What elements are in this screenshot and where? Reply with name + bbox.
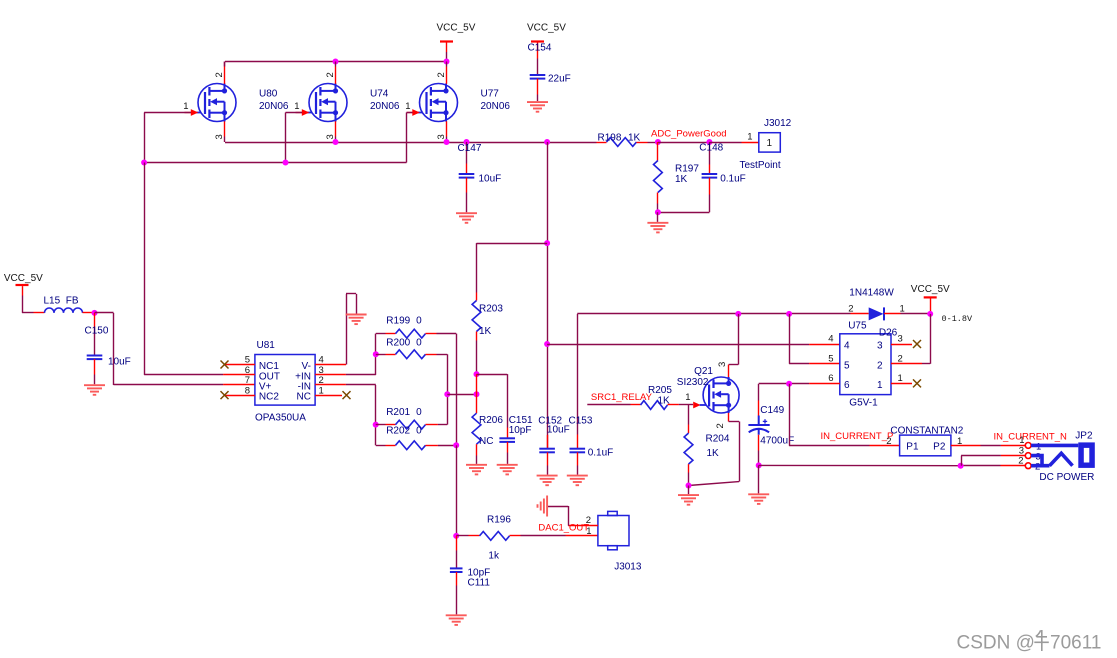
svg-text:VCC_5V: VCC_5V bbox=[911, 284, 950, 295]
watermark CSDN bbox=[957, 630, 1102, 654]
resistor R199 0 bbox=[376, 315, 456, 338]
transistor U77 20N06 bbox=[416, 84, 510, 122]
pin 3 lead U80 bbox=[214, 121, 225, 142]
svg-text:2: 2 bbox=[586, 515, 591, 526]
junction source bus U74 bbox=[333, 139, 339, 145]
wire source bus bbox=[225, 142, 597, 144]
junction diode row Q21 drain bbox=[735, 311, 741, 317]
wire Q21 drain bbox=[729, 314, 739, 377]
wire R202 node down to R196 bbox=[456, 445, 458, 536]
capacitor C149 4700uF bbox=[748, 384, 794, 466]
svg-text:R200: R200 bbox=[386, 337, 410, 348]
junction R203 bottom link bbox=[474, 391, 480, 397]
ground R204 bbox=[688, 486, 690, 495]
svg-text:DC POWER: DC POWER bbox=[1039, 472, 1094, 483]
pin 2 lead U77 bbox=[436, 62, 447, 84]
pin 3 lead U77 bbox=[436, 121, 447, 142]
junction source bus main vertical bbox=[544, 139, 550, 145]
capacitor C153 0.1uF bbox=[569, 314, 614, 475]
wire U77 gate bbox=[407, 113, 413, 163]
pin 5 NC1 lead with no-connect bbox=[221, 361, 255, 369]
ground C147 bbox=[456, 213, 477, 223]
junction R196 C111 node bbox=[453, 533, 459, 539]
pin 8 NC2 lead with no-connect bbox=[221, 391, 255, 399]
svg-text:2: 2 bbox=[1018, 456, 1023, 467]
ground C152 bbox=[537, 476, 558, 486]
svg-text:22uF: 22uF bbox=[548, 74, 571, 85]
pin 2 -IN lead bbox=[315, 384, 376, 386]
svg-text:5: 5 bbox=[828, 353, 833, 364]
svg-text:R199: R199 bbox=[386, 315, 410, 326]
svg-text:1K: 1K bbox=[479, 326, 492, 337]
wire +IN vertical bbox=[375, 334, 377, 375]
svg-text:JP2: JP2 bbox=[1075, 431, 1093, 442]
svg-text:20N06: 20N06 bbox=[370, 101, 400, 112]
pin 2 relay lead bbox=[891, 314, 931, 364]
svg-text:R197: R197 bbox=[675, 163, 699, 174]
svg-text:1K: 1K bbox=[707, 448, 720, 459]
resistor R197 1K bbox=[654, 142, 700, 212]
svg-text:P2: P2 bbox=[933, 442, 946, 453]
svg-text:1N4148W: 1N4148W bbox=[849, 288, 894, 299]
power VCC_5V (relay) bbox=[911, 284, 950, 314]
svg-text:10uF: 10uF bbox=[479, 174, 502, 185]
svg-text:R206: R206 bbox=[479, 415, 503, 426]
svg-text:10uF: 10uF bbox=[547, 425, 570, 436]
junction -IN R201 bbox=[373, 422, 379, 428]
svg-text:Q21: Q21 bbox=[694, 366, 713, 377]
svg-text:VCC_5V: VCC_5V bbox=[4, 273, 43, 284]
wire JP2 pin3 link bbox=[961, 456, 1025, 466]
capacitor C151 10pF bbox=[499, 415, 533, 464]
svg-text:CONSTANTAN2: CONSTANTAN2 bbox=[890, 426, 963, 437]
svg-text:U74: U74 bbox=[370, 89, 389, 100]
wire U80 gate bbox=[144, 113, 191, 163]
svg-text:1K: 1K bbox=[658, 396, 671, 407]
svg-text:1K: 1K bbox=[675, 174, 688, 185]
svg-text:C154: C154 bbox=[528, 42, 552, 53]
resistor R206 NC bbox=[472, 394, 503, 464]
svg-text:0.1uF: 0.1uF bbox=[588, 448, 614, 459]
wire bottom bus to JP2 bbox=[759, 464, 1026, 466]
junction C149 bottom bbox=[756, 462, 762, 468]
junction gate bus U74 bbox=[283, 160, 289, 166]
svg-text:ADC_PowerGood: ADC_PowerGood bbox=[651, 129, 727, 140]
junction Q21 source R204 bbox=[686, 483, 692, 489]
svg-text:4: 4 bbox=[828, 334, 833, 345]
wire U80 drain corner bbox=[224, 62, 226, 67]
svg-text:R203: R203 bbox=[479, 304, 503, 315]
wire Q21 source bbox=[689, 413, 740, 486]
wire J3013 pin2 to ground bbox=[548, 506, 598, 526]
wire node to C148 bbox=[658, 142, 710, 144]
resistor R203 1K bbox=[472, 293, 503, 375]
pin 2 lead U74 bbox=[325, 62, 336, 84]
svg-text:1: 1 bbox=[586, 526, 591, 537]
svg-text:1: 1 bbox=[900, 304, 905, 315]
pin 1 gate lead Q21 bbox=[685, 392, 700, 408]
power VCC_5V (left) bbox=[4, 273, 43, 285]
svg-text:NC: NC bbox=[479, 436, 493, 447]
testpoint J3012 bbox=[740, 118, 792, 171]
svg-text:0: 0 bbox=[416, 337, 422, 348]
junction top bus at U74 drain bbox=[333, 59, 339, 65]
svg-text:R204: R204 bbox=[706, 434, 730, 445]
svg-text:C111: C111 bbox=[468, 578, 491, 589]
svg-text:R196: R196 bbox=[487, 515, 511, 526]
wire VCC to L15 bbox=[22, 286, 45, 313]
wire pin6 node to P1 bbox=[789, 384, 900, 446]
svg-text:1: 1 bbox=[767, 138, 773, 149]
svg-text:3: 3 bbox=[717, 362, 728, 367]
svg-text:4: 4 bbox=[844, 341, 850, 352]
pin 4 V- lead bbox=[315, 294, 356, 365]
relay U75 G5V-1 bbox=[828, 321, 903, 409]
junction +IN R200 bbox=[373, 351, 379, 357]
svg-text:IN_CURRENT_P: IN_CURRENT_P bbox=[821, 431, 894, 442]
wire gate bus to U81 OUT bbox=[144, 163, 223, 375]
svg-text:R205: R205 bbox=[648, 385, 672, 396]
resistor R201 0 bbox=[376, 407, 448, 429]
junction R203 bottom bbox=[474, 371, 480, 377]
junction relay row branch bbox=[544, 341, 550, 347]
svg-text:10uF: 10uF bbox=[108, 357, 131, 368]
svg-text:C149: C149 bbox=[760, 405, 784, 416]
svg-text:R198: R198 bbox=[598, 133, 622, 144]
wire relay pin6 row bbox=[759, 383, 840, 385]
junction R202 right bbox=[453, 442, 459, 448]
svg-text:TestPoint: TestPoint bbox=[740, 160, 781, 171]
svg-text:C147: C147 bbox=[458, 143, 482, 154]
svg-text:C148: C148 bbox=[699, 143, 723, 154]
svg-text:R202: R202 bbox=[386, 426, 410, 437]
svg-text:0.1uF: 0.1uF bbox=[720, 174, 746, 185]
svg-text:C150: C150 bbox=[85, 326, 109, 337]
transistor U80 20N06 bbox=[195, 84, 289, 122]
ground C154 bbox=[527, 102, 548, 112]
svg-text:NC: NC bbox=[297, 392, 311, 403]
junction pin6 node bbox=[786, 381, 792, 387]
capacitor C152 10uF bbox=[538, 415, 569, 474]
svg-text:6: 6 bbox=[828, 373, 833, 384]
ground C150 bbox=[84, 385, 105, 395]
pin 3 relay no-connect bbox=[891, 340, 921, 348]
wire C150 to U81 V+ bbox=[95, 313, 255, 386]
junction C148 top bbox=[706, 139, 712, 145]
ground C153 bbox=[567, 476, 588, 486]
connector J3013 bbox=[586, 511, 642, 572]
svg-text:SI2302: SI2302 bbox=[677, 377, 709, 388]
pin 1 gate lead U74 bbox=[294, 101, 309, 116]
svg-text:20N06: 20N06 bbox=[481, 101, 511, 112]
svg-text:1: 1 bbox=[685, 392, 690, 403]
svg-text:8: 8 bbox=[245, 385, 250, 396]
wire -IN vertical bbox=[375, 385, 377, 445]
svg-text:NC1: NC1 bbox=[259, 361, 279, 372]
transistor U74 20N06 bbox=[306, 84, 400, 122]
junction diode VCC node bbox=[927, 311, 933, 317]
wire R199-R202 right vertical bbox=[456, 334, 458, 446]
svg-text:U81: U81 bbox=[257, 340, 276, 351]
junction source bus U77 bbox=[444, 139, 450, 145]
pin 3 +IN lead bbox=[315, 374, 376, 376]
svg-text:2: 2 bbox=[325, 72, 336, 77]
svg-text:0-1.8V: 0-1.8V bbox=[942, 314, 974, 324]
svg-text:C153: C153 bbox=[569, 415, 593, 426]
svg-text:2: 2 bbox=[214, 72, 225, 77]
op-amp U81 OPA350UA bbox=[245, 340, 324, 424]
svg-text:D26: D26 bbox=[879, 327, 898, 338]
transistor Q21 SI2302 bbox=[677, 362, 739, 429]
connector JP2 DC POWER bbox=[1018, 431, 1095, 483]
svg-text:R201: R201 bbox=[386, 407, 410, 418]
junction node ADC_PowerGood bbox=[655, 139, 661, 145]
junction source bus C147 bbox=[464, 139, 470, 145]
junction feedback node bbox=[444, 391, 450, 397]
svg-text:1: 1 bbox=[294, 101, 299, 112]
ground R206 bbox=[466, 465, 487, 475]
svg-text:2: 2 bbox=[886, 436, 891, 447]
wire branch to R203 bbox=[477, 243, 548, 292]
wire gate bus bbox=[144, 162, 406, 164]
svg-text:1: 1 bbox=[183, 101, 188, 112]
svg-text:J3012: J3012 bbox=[764, 118, 792, 129]
junction top bus at U77 drain bbox=[444, 59, 450, 65]
svg-text:1k: 1k bbox=[488, 551, 500, 562]
ground C149 bbox=[758, 465, 760, 493]
svg-text:1: 1 bbox=[898, 373, 903, 384]
svg-text:3: 3 bbox=[898, 334, 903, 345]
svg-text:VCC_5V: VCC_5V bbox=[527, 23, 566, 34]
junction gate bus left bbox=[141, 160, 147, 166]
diode D26 1N4148W bbox=[848, 288, 930, 321]
wire P2 to JP2 pin1 bbox=[951, 445, 1025, 447]
wire to relay pin 4 bbox=[547, 344, 840, 346]
svg-text:L15 FB: L15 FB bbox=[44, 296, 79, 307]
svg-text:NC2: NC2 bbox=[259, 392, 279, 403]
resistor R202 0 bbox=[376, 426, 456, 450]
wire relay pin5 drop bbox=[789, 314, 840, 364]
svg-text:3: 3 bbox=[325, 134, 336, 139]
svg-text:OPA350UA: OPA350UA bbox=[255, 412, 306, 423]
svg-text:1: 1 bbox=[877, 380, 883, 391]
capacitor C154 22uF bbox=[528, 42, 571, 101]
svg-text:2: 2 bbox=[436, 72, 447, 77]
wire top drain bus bbox=[225, 61, 447, 63]
wire R197 C148 bottoms bbox=[658, 212, 710, 214]
svg-text:3: 3 bbox=[877, 341, 883, 352]
resistor R205 1K bbox=[631, 385, 694, 409]
wire to testpoint bbox=[709, 142, 758, 144]
svg-text:VCC_5V: VCC_5V bbox=[437, 23, 476, 34]
resistor R200 0 bbox=[376, 337, 448, 358]
svg-text:3: 3 bbox=[214, 134, 225, 139]
svg-text:0: 0 bbox=[416, 315, 422, 326]
pin 1 gate lead U80 bbox=[183, 101, 198, 116]
ground J3013 (rotated) bbox=[538, 496, 548, 517]
svg-text:U75: U75 bbox=[848, 321, 867, 332]
svg-text:70611: 70611 bbox=[1050, 633, 1101, 654]
power VCC_5V (top, over U77) bbox=[437, 23, 476, 42]
resistor R196 1k bbox=[456, 515, 565, 562]
svg-text:2: 2 bbox=[715, 423, 726, 428]
svg-text:DAC1_OUT: DAC1_OUT bbox=[538, 523, 589, 534]
inductor L15 FB bbox=[44, 296, 95, 313]
svg-text:G5V-1: G5V-1 bbox=[849, 397, 878, 408]
wire R203 node to C151 bbox=[477, 374, 508, 427]
pin 1 relay no-connect bbox=[891, 379, 921, 387]
svg-text:5: 5 bbox=[844, 360, 850, 371]
svg-text:1K: 1K bbox=[628, 133, 641, 144]
svg-text:CSDN @: CSDN @ bbox=[957, 633, 1035, 654]
svg-text:0: 0 bbox=[416, 407, 422, 418]
svg-text:1: 1 bbox=[747, 132, 752, 143]
svg-text:V-: V- bbox=[302, 361, 311, 372]
ground C111 bbox=[446, 615, 467, 625]
wire R203 node down bbox=[476, 374, 478, 394]
svg-text:1: 1 bbox=[405, 101, 410, 112]
junction main vertical R203 branch bbox=[544, 240, 550, 246]
svg-text:20N06: 20N06 bbox=[259, 101, 289, 112]
wire SRC1_RELAY stub bbox=[587, 404, 630, 406]
pin 2 lead U80 bbox=[214, 62, 225, 84]
svg-text:3: 3 bbox=[436, 134, 447, 139]
svg-text:2: 2 bbox=[848, 304, 853, 315]
svg-text:10pF: 10pF bbox=[509, 425, 532, 436]
svg-text:P1: P1 bbox=[906, 442, 919, 453]
svg-text:U80: U80 bbox=[259, 89, 278, 100]
wire R200-R201 right vertical bbox=[447, 354, 449, 424]
wire VCC to top bus bbox=[446, 43, 448, 62]
svg-text:6: 6 bbox=[844, 380, 850, 391]
svg-text:2: 2 bbox=[898, 353, 903, 364]
ground R197 C148 bbox=[657, 212, 659, 222]
wire to J3013 pin1 bbox=[566, 535, 598, 537]
junction diode row relay pin5 bbox=[786, 311, 792, 317]
svg-text:U77: U77 bbox=[481, 89, 500, 100]
resistor R198 1K bbox=[597, 133, 658, 147]
wire main vertical VCC rail bbox=[547, 142, 549, 449]
wire diode row bbox=[577, 313, 850, 315]
capacitor C148 0.1uF bbox=[699, 142, 745, 212]
svg-text:IN_CURRENT_N: IN_CURRENT_N bbox=[994, 431, 1068, 442]
pin 6 OUT lead bbox=[223, 374, 255, 376]
connector CONSTANTAN2 bbox=[886, 426, 964, 456]
svg-text:2: 2 bbox=[877, 360, 883, 371]
pin 3 lead U74 bbox=[325, 121, 336, 142]
svg-text:1: 1 bbox=[319, 385, 324, 396]
pin 1 NC lead with no-connect bbox=[315, 391, 350, 399]
capacitor C111 10pF bbox=[450, 536, 490, 615]
svg-text:J3013: J3013 bbox=[614, 562, 642, 573]
ground U81 V- bbox=[346, 315, 367, 325]
pin 1 gate lead U77 bbox=[405, 101, 420, 116]
capacitor C147 10uF bbox=[458, 142, 502, 212]
junction bottom bus JP2 pin3 branch bbox=[958, 463, 964, 469]
capacitor C150 10uF bbox=[85, 313, 131, 384]
power VCC_5V (C154) bbox=[527, 23, 566, 42]
wire U74 gate bbox=[286, 113, 303, 163]
resistor R204 1K bbox=[684, 405, 730, 486]
wire feedback cross link bbox=[447, 394, 476, 396]
svg-text:0: 0 bbox=[416, 426, 422, 437]
junction ground node R197 bbox=[655, 209, 661, 215]
ground C151 bbox=[497, 465, 518, 475]
junction L15 C150 bbox=[92, 310, 98, 316]
